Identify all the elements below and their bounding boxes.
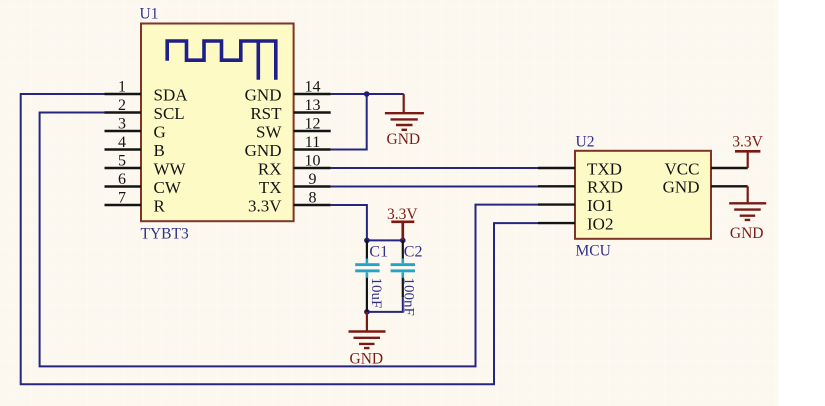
svg-text:GND: GND: [245, 141, 282, 160]
IC U1 body: [141, 24, 294, 222]
svg-text:VCC: VCC: [665, 159, 700, 178]
svg-text:SCL: SCL: [154, 104, 185, 123]
svg-text:10: 10: [305, 152, 321, 169]
svg-text:4: 4: [118, 134, 126, 151]
svg-text:RX: RX: [258, 159, 282, 178]
svg-text:TX: TX: [259, 178, 282, 197]
svg-text:8: 8: [309, 189, 317, 206]
svg-text:1: 1: [118, 78, 126, 95]
svg-text:SDA: SDA: [154, 85, 189, 104]
U1 pin 14 GND: [245, 78, 331, 104]
svg-text:7: 7: [118, 189, 126, 206]
svg-text:GND: GND: [387, 131, 421, 148]
svg-text:G: G: [154, 122, 166, 141]
U1 designator label: [140, 6, 159, 23]
svg-text:WW: WW: [154, 159, 187, 178]
svg-text:13: 13: [305, 97, 321, 114]
U1 part name TYBT3: [141, 225, 189, 242]
wire ground rail C1 to C2: [367, 296, 403, 312]
wire 3.3V rail C1 to C2: [367, 239, 403, 241]
svg-text:GND: GND: [663, 178, 700, 197]
U2 pin IO2: [538, 214, 613, 233]
svg-text:U1: U1: [140, 6, 159, 23]
wire U1 TX to U2 RXD: [331, 186, 538, 188]
U1 pin 1 SDA: [105, 78, 189, 104]
svg-text:TXD: TXD: [587, 159, 622, 178]
capacitor C1: [355, 240, 388, 312]
U1 pin 4 B: [105, 134, 165, 160]
svg-text:C2: C2: [404, 243, 423, 260]
svg-text:5: 5: [118, 152, 126, 169]
svg-text:3: 3: [118, 115, 126, 132]
svg-text:R: R: [154, 196, 166, 215]
U2 pin GND: [663, 178, 748, 197]
wire U1 RX to U2 TXD: [331, 167, 538, 169]
U1 pin 13 RST: [250, 97, 330, 123]
power symbol 3.3V at capacitor rail: [387, 206, 418, 241]
svg-text:C1: C1: [369, 243, 388, 260]
U1 pin 11 GND: [245, 134, 331, 160]
svg-text:GND: GND: [730, 225, 764, 242]
U1 pin 8 3.3V: [248, 189, 331, 215]
U1 pin 10 RX: [258, 152, 331, 178]
ground symbol GND at U2: [729, 186, 766, 242]
junction dot pin14 net: [364, 91, 370, 97]
U1 pin 12 SW: [256, 115, 331, 141]
U1 pin 9 TX: [259, 171, 331, 197]
U2 pin TXD: [538, 159, 622, 178]
svg-text:IO1: IO1: [587, 196, 613, 215]
U2 pin RXD: [538, 178, 623, 197]
svg-text:TYBT3: TYBT3: [141, 225, 189, 242]
svg-text:RST: RST: [250, 104, 282, 123]
svg-text:10uF: 10uF: [368, 278, 384, 309]
U2 designator label: [576, 133, 595, 150]
svg-text:B: B: [154, 141, 165, 160]
wire U1 SCL pin2 to U2 IO1: [40, 113, 538, 367]
wire U1 SDA pin1 to U2 IO2: [21, 94, 538, 384]
svg-text:9: 9: [309, 171, 317, 188]
svg-text:SW: SW: [256, 122, 282, 141]
wire U1 3.3V pin8 down to capacitor rail: [331, 205, 367, 240]
U1 pin 7 R: [105, 189, 166, 215]
svg-text:2: 2: [118, 97, 126, 114]
IC U2 body: [575, 151, 711, 239]
U1 pin 6 CW: [105, 171, 182, 197]
U2 pin IO1: [538, 196, 613, 215]
power symbol 3.3V at U2 VCC: [732, 134, 763, 169]
svg-text:RXD: RXD: [587, 178, 623, 197]
svg-text:3.3V: 3.3V: [387, 206, 418, 223]
svg-text:IO2: IO2: [587, 214, 613, 233]
junction dot rail at C1: [364, 238, 370, 244]
svg-text:3.3V: 3.3V: [732, 134, 763, 151]
svg-text:11: 11: [305, 134, 320, 151]
U1 antenna symbol: [167, 41, 276, 80]
ground symbol GND near U1 pin14: [385, 94, 424, 148]
U1 pin 3 G: [105, 115, 166, 141]
U2 part name MCU: [576, 243, 611, 260]
svg-text:U2: U2: [576, 133, 595, 150]
svg-text:6: 6: [118, 171, 126, 188]
U2 pin VCC: [665, 159, 748, 178]
wire junction to pin 11 GND: [331, 93, 367, 150]
junction dot rail at C2: [400, 238, 406, 244]
svg-text:GND: GND: [245, 85, 282, 104]
U1 pin 5 WW: [105, 152, 187, 178]
svg-text:GND: GND: [350, 350, 384, 367]
svg-text:MCU: MCU: [576, 243, 611, 260]
svg-text:14: 14: [305, 78, 321, 95]
junction dot ground rail at C1: [364, 309, 370, 315]
ground symbol GND below capacitors: [349, 312, 386, 367]
capacitor C2: [391, 240, 423, 315]
wire pin14 GND to ground stub: [331, 93, 404, 95]
U1 pin 2 SCL: [105, 97, 185, 123]
svg-text:CW: CW: [154, 178, 182, 197]
svg-text:12: 12: [305, 115, 321, 132]
svg-text:3.3V: 3.3V: [248, 196, 282, 215]
svg-text:100nF: 100nF: [400, 278, 416, 316]
